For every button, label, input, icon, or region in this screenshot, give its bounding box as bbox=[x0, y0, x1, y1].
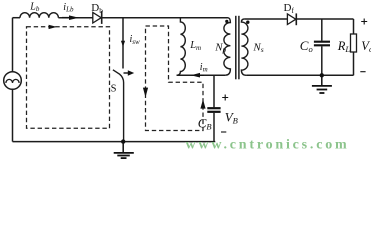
svg-text:RL: RL bbox=[337, 39, 351, 54]
svg-text:CB: CB bbox=[198, 115, 212, 131]
svg-text:isw: isw bbox=[130, 34, 141, 46]
svg-text:Co: Co bbox=[300, 38, 313, 54]
svg-text:S: S bbox=[111, 83, 117, 94]
svg-text:Lm: Lm bbox=[189, 40, 201, 52]
svg-text:im: im bbox=[200, 62, 208, 74]
svg-text:iLb: iLb bbox=[63, 2, 74, 14]
svg-text:Db: Db bbox=[91, 2, 103, 15]
svg-text:Ns: Ns bbox=[252, 41, 263, 54]
svg-text:Df: Df bbox=[284, 2, 295, 15]
svg-text:Vo: Vo bbox=[361, 39, 371, 54]
svg-text:Lb: Lb bbox=[29, 1, 40, 13]
svg-text:www.cntronics.com: www.cntronics.com bbox=[186, 138, 350, 153]
svg-text:VB: VB bbox=[225, 109, 238, 125]
